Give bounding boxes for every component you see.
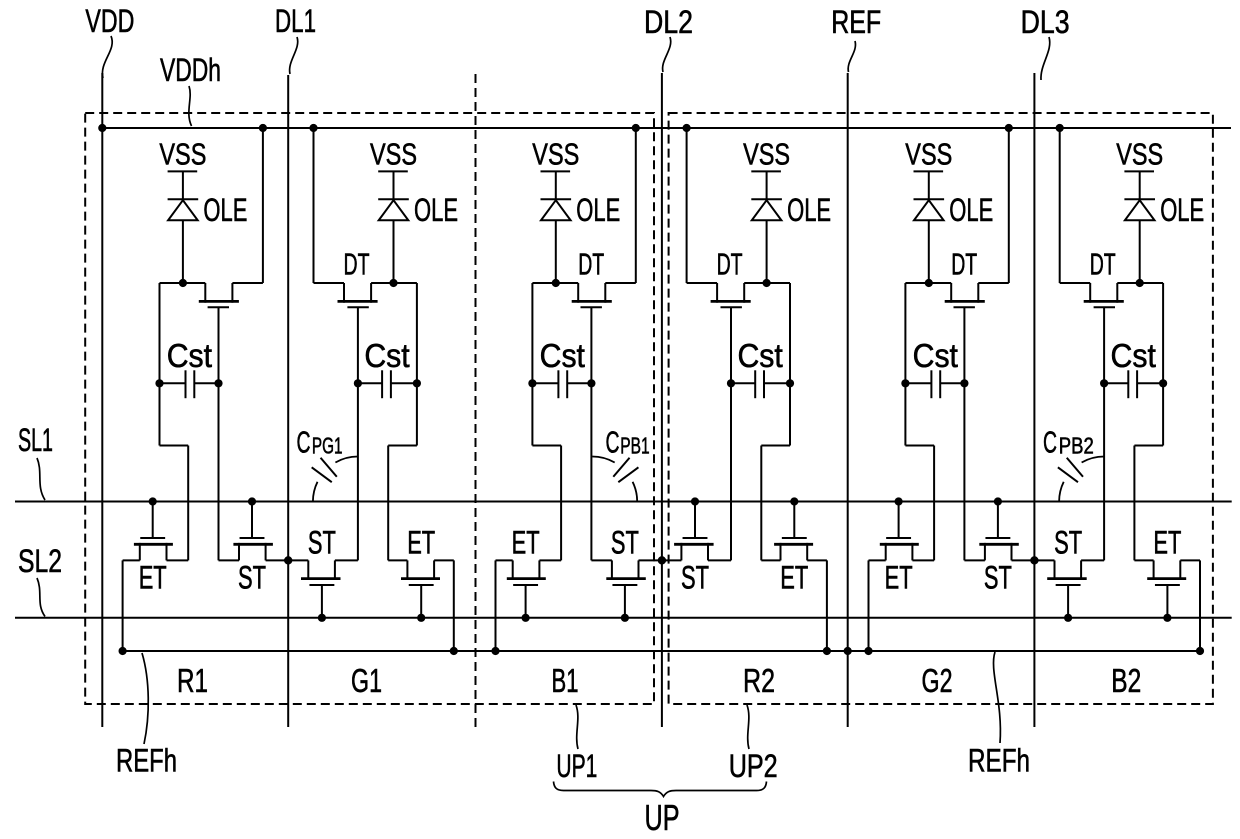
brace and label UP [554, 782, 767, 839]
wire node to Cst plate B2 [1162, 283, 1164, 383]
svg-text:OLE: OLE [203, 192, 247, 228]
power terminal VSS of cell R2 [743, 137, 790, 172]
svg-text:OLE: OLE [576, 192, 620, 228]
wire ST stubs to gate net and data line B1 [591, 559, 661, 561]
svg-text:ET: ET [885, 560, 913, 596]
svg-text:VSS: VSS [532, 137, 579, 172]
label DL2 with leader [644, 4, 693, 72]
wire VDDh feed to DT drain B1 [605, 124, 640, 283]
wire scan line SL1 [15, 501, 1232, 503]
svg-text:G1: G1 [351, 662, 382, 699]
wire gate net Cst to ST G2 [963, 383, 965, 560]
wire ET source stub to REFh G1 [388, 560, 458, 655]
cell label B2 [1111, 662, 1141, 699]
OLED diode OLE of cell R2 [751, 192, 831, 228]
junction ST to data line B1 [658, 556, 666, 564]
wire OLE anode to node G2 [928, 220, 930, 283]
svg-text:DL1: DL1 [275, 3, 316, 39]
label DL1 with leader [275, 3, 316, 74]
transistor ST of cell B2 [1047, 525, 1087, 622]
wire node branch to ET G1 [388, 383, 417, 560]
svg-text:R1: R1 [177, 662, 208, 699]
svg-text:Cst: Cst [737, 337, 782, 374]
svg-text:ET: ET [1153, 525, 1181, 561]
transistor ST of cell G2 [979, 497, 1019, 595]
svg-text:DT: DT [1090, 247, 1116, 282]
label DL3 with leader [1021, 4, 1070, 80]
svg-text:ET: ET [407, 525, 435, 561]
dashed box unit pixel group UP1 [85, 113, 654, 704]
label REFh right with leader [968, 652, 1030, 779]
cell label G1 [351, 662, 382, 699]
wire ST stubs to gate net and data line G2 [964, 559, 1034, 561]
svg-text:SL1: SL1 [18, 422, 53, 458]
transistor ET of cell G1 [401, 525, 440, 622]
wire ET source stub to REFh R1 [119, 560, 189, 655]
svg-text:UP: UP [645, 797, 680, 838]
svg-text:PB2: PB2 [1059, 433, 1094, 459]
OLED diode OLE of cell G1 [378, 192, 458, 228]
parasitic capacitor CPB2 between SL1 and B2 gate net [1043, 424, 1104, 501]
wire VDDh horizontal power rail [102, 127, 1231, 129]
svg-text:DL3: DL3 [1021, 4, 1070, 40]
wire node to Cst plate R2 [789, 283, 791, 383]
wire OLE anode to node B1 [555, 220, 557, 283]
wire VDDh feed to DT drain R2 [683, 124, 718, 283]
svg-text:VSS: VSS [905, 137, 952, 172]
svg-text:VDD: VDD [85, 3, 134, 39]
wire node branch to ET R1 [160, 383, 189, 560]
label UP1 with leader [556, 705, 597, 784]
transistor ST of cell R1 [233, 497, 273, 595]
power terminal VSS of cell B2 [1116, 137, 1163, 172]
wire REFh horizontal reference rail [123, 650, 1201, 652]
wire VSS to OLE cathode G2 [928, 171, 930, 199]
svg-text:ST: ST [1054, 525, 1082, 561]
wire node branch to ET B2 [1134, 383, 1163, 560]
transistor DT of cell R2 [711, 247, 751, 384]
wire ET source stub to REFh G2 [864, 560, 934, 655]
capacitor Cst of cell R1 [155, 337, 222, 398]
cell label R2 [743, 662, 775, 699]
node NG2 (OLE anode / DT source / Cst plate) [905, 279, 951, 287]
svg-text:UP2: UP2 [729, 748, 778, 784]
capacitor Cst of cell G2 [901, 337, 968, 398]
wire VSS to OLE cathode B2 [1139, 171, 1141, 199]
power terminal VSS of cell G1 [370, 137, 417, 172]
svg-text:R2: R2 [743, 662, 775, 699]
transistor ST of cell G1 [301, 525, 341, 622]
OLED diode OLE of cell B2 [1124, 192, 1204, 228]
transistor DT of cell B2 [1084, 247, 1124, 384]
cell label G2 [922, 662, 953, 699]
transistor ET of cell G2 [880, 497, 919, 595]
label UP2 with leader [729, 705, 778, 784]
svg-text:Cst: Cst [540, 337, 585, 374]
svg-text:VSS: VSS [743, 137, 790, 172]
svg-text:ET: ET [139, 560, 167, 596]
wire node branch to ET B1 [532, 383, 561, 560]
svg-text:PB1: PB1 [620, 433, 649, 459]
wire VSS to OLE cathode R1 [182, 171, 184, 199]
svg-text:VSS: VSS [370, 137, 417, 172]
wire node to Cst plate R1 [159, 283, 161, 383]
svg-text:VDDh: VDDh [160, 52, 221, 88]
wire VDDh feed to DT drain B2 [1056, 124, 1091, 283]
wire OLE anode to node R2 [766, 220, 768, 283]
power terminal VSS of cell B1 [532, 137, 579, 172]
wire ST stubs to gate net and data line R1 [219, 559, 289, 561]
svg-text:C: C [606, 424, 620, 459]
capacitor Cst of cell R2 [727, 337, 794, 398]
svg-text:DL2: DL2 [644, 4, 693, 40]
node NG1 (OLE anode / DT source / Cst plate) [371, 279, 417, 287]
wire ST stubs to gate net and data line B2 [1034, 559, 1104, 561]
label SL1 with leader [18, 422, 53, 500]
transistor ST of cell B1 [606, 525, 646, 622]
svg-text:SL2: SL2 [18, 543, 62, 579]
svg-text:REF: REF [831, 4, 881, 40]
cell label B1 [552, 662, 579, 699]
svg-text:Cst: Cst [1111, 337, 1156, 374]
dashed box unit pixel group UP2 [669, 113, 1213, 704]
parasitic capacitor CPB1 between B1 gate net and SL1 [592, 424, 649, 501]
power terminal VSS of cell G2 [905, 137, 952, 172]
label REF with leader [831, 4, 881, 72]
transistor ST of cell R2 [674, 497, 714, 595]
data line DL1 vertical [287, 75, 289, 727]
data line DL3 vertical [1033, 73, 1035, 727]
dashed separator between G1 and B1 [475, 74, 477, 727]
transistor ET of cell R2 [774, 497, 813, 595]
svg-text:OLE: OLE [787, 192, 831, 228]
svg-text:DT: DT [578, 247, 604, 282]
node NB1 (OLE anode / DT source / Cst plate) [532, 279, 578, 287]
junction ST to data line B2 [1030, 556, 1038, 564]
label REFh left with leader [116, 653, 177, 779]
wire VDDh feed to DT drain R1 [232, 124, 267, 283]
capacitor Cst of cell B1 [528, 337, 595, 398]
junction ST to data line G1 [284, 556, 292, 564]
cell label R1 [177, 662, 208, 699]
svg-text:OLE: OLE [1160, 192, 1204, 228]
wire node branch to ET R2 [761, 383, 790, 560]
transistor DT of cell G2 [945, 247, 985, 384]
wire ET source stub to REFh R2 [761, 560, 831, 655]
wire gate net Cst to ST R2 [730, 383, 732, 560]
transistor ET of cell R1 [134, 497, 173, 595]
junction REF-REFh [844, 647, 852, 655]
label SL2 with leader [18, 543, 62, 617]
junction ST to data line R1 [284, 556, 292, 564]
wire VSS to OLE cathode R2 [766, 171, 768, 199]
power terminal VSS of cell R1 [159, 137, 206, 172]
junction ST to data line R2 [658, 556, 666, 564]
svg-text:VSS: VSS [159, 137, 206, 172]
transistor DT of cell G1 [338, 247, 378, 384]
wire ET source stub to REFh B2 [1134, 560, 1204, 655]
svg-text:ST: ST [681, 560, 709, 596]
wire scan line SL2 [15, 617, 1232, 619]
wire node branch to ET G2 [905, 383, 934, 560]
svg-text:C: C [297, 424, 311, 459]
wire ET source stub to REFh B1 [491, 560, 561, 655]
svg-text:ST: ST [984, 560, 1012, 596]
power line VDD vertical [101, 73, 103, 727]
svg-text:DT: DT [717, 247, 743, 282]
wire gate net Cst to ST B1 [590, 383, 592, 560]
junction ST to data line G2 [1030, 556, 1038, 564]
wire VDDh feed to DT drain G2 [978, 124, 1013, 283]
capacitor Cst of cell G1 [354, 337, 421, 398]
transistor ET of cell B2 [1147, 525, 1186, 622]
reference line REF vertical [847, 73, 849, 727]
wire OLE anode to node B2 [1139, 220, 1141, 283]
svg-text:VSS: VSS [1116, 137, 1163, 172]
svg-text:ST: ST [611, 525, 639, 561]
label VDD with leader [85, 3, 134, 78]
svg-text:PG1: PG1 [312, 433, 343, 459]
svg-text:G2: G2 [922, 662, 953, 699]
wire gate net Cst to ST R1 [218, 383, 220, 560]
capacitor Cst of cell B2 [1100, 337, 1167, 398]
node NB2 (OLE anode / DT source / Cst plate) [1117, 279, 1163, 287]
wire VSS to OLE cathode B1 [555, 171, 557, 199]
svg-text:UP1: UP1 [556, 748, 597, 784]
transistor ET of cell B1 [507, 525, 546, 622]
svg-text:ET: ET [512, 525, 540, 561]
svg-text:Cst: Cst [913, 337, 958, 374]
wire gate net Cst to ST B2 [1103, 383, 1105, 560]
svg-text:C: C [1043, 424, 1057, 459]
svg-text:DT: DT [344, 247, 370, 282]
OLED diode OLE of cell G2 [914, 192, 994, 228]
svg-text:B1: B1 [552, 662, 579, 699]
node NR2 (OLE anode / DT source / Cst plate) [744, 279, 790, 287]
wire ST stubs to gate net and data line G1 [288, 559, 358, 561]
transistor DT of cell R1 [199, 283, 239, 383]
svg-text:REFh: REFh [116, 743, 177, 779]
OLED diode OLE of cell B1 [541, 192, 621, 228]
wire VDDh feed to DT drain G1 [309, 124, 344, 283]
svg-text:DT: DT [951, 247, 977, 282]
data line DL2 vertical [661, 73, 663, 727]
wire node to Cst plate G1 [416, 283, 418, 383]
junction VDD-VDDh [98, 124, 106, 132]
svg-text:OLE: OLE [414, 192, 458, 228]
wire ST stubs to gate net and data line R2 [661, 559, 731, 561]
node NR1 (OLE anode / DT source / Cst plate) [160, 279, 206, 287]
parasitic capacitor CPG1 between SL1 and G1 gate net [297, 424, 358, 501]
svg-text:ST: ST [238, 560, 266, 596]
svg-text:ST: ST [308, 525, 336, 561]
OLED diode OLE of cell R1 [168, 192, 248, 228]
wire gate net Cst to ST G1 [357, 383, 359, 560]
wire VSS to OLE cathode G1 [393, 171, 395, 199]
svg-text:ET: ET [780, 560, 808, 596]
wire OLE anode to node R1 [182, 220, 184, 283]
label VDDh with leader [160, 52, 221, 126]
svg-text:B2: B2 [1111, 662, 1141, 699]
svg-text:OLE: OLE [949, 192, 993, 228]
svg-text:REFh: REFh [968, 743, 1030, 779]
transistor DT of cell B1 [572, 247, 612, 384]
wire node to Cst plate G2 [904, 283, 906, 383]
svg-text:Cst: Cst [364, 337, 409, 374]
wire OLE anode to node G1 [393, 220, 395, 283]
svg-text:Cst: Cst [167, 337, 212, 374]
wire node to Cst plate B1 [531, 283, 533, 383]
